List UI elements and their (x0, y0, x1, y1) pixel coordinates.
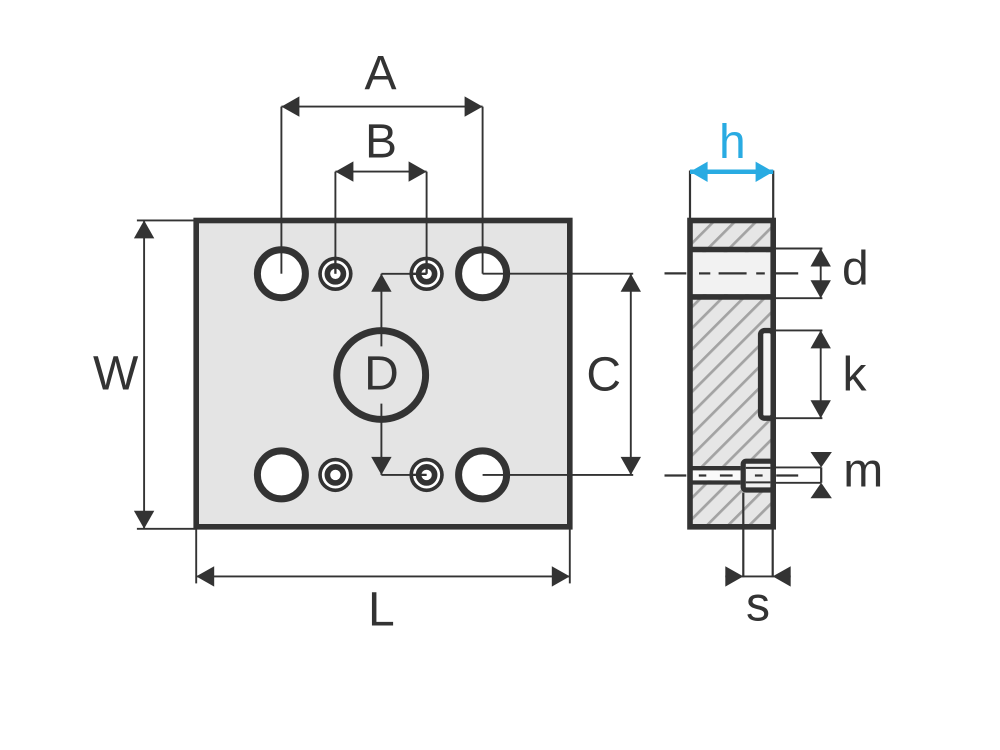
boss inner line top (746, 467, 771, 469)
groove band d (no hatch) (691, 252, 772, 294)
dimension B extension line left (334, 172, 336, 274)
hole bottom-left (257, 451, 305, 499)
centerline of slot m (665, 474, 799, 476)
slot band m bottom edge (690, 480, 741, 484)
slot band m (white) (691, 470, 741, 480)
dimension d line (811, 249, 831, 299)
dimension k line (811, 330, 831, 418)
svg-text:d: d (842, 243, 869, 296)
svg-text:L: L (368, 584, 395, 637)
dimension s line and outside arrows (725, 566, 790, 586)
dimension d extension lines (776, 248, 822, 250)
dimension C extension lines (483, 273, 634, 275)
slot band m top edge (690, 466, 741, 470)
dimension A extension line right (482, 107, 484, 274)
svg-text:C: C (586, 349, 621, 402)
A leader line inside top-left hole (280, 250, 282, 274)
hole top-left (257, 250, 305, 298)
dimension W line (134, 220, 154, 528)
dimension s extension lines (742, 493, 744, 578)
groove band d bottom edge (690, 294, 773, 300)
center bore D (337, 331, 426, 420)
svg-text:B: B (365, 116, 397, 169)
dimension k extension lines (776, 329, 822, 331)
dimension B extension line right (426, 172, 428, 274)
dimension h extension lines (689, 171, 691, 219)
dimension A line (281, 96, 482, 116)
svg-text:W: W (93, 348, 139, 401)
dimension D vertical line with arrows (371, 274, 426, 475)
dimension m extension lines (776, 466, 821, 468)
counterbore bottom-right (409, 458, 443, 492)
dimension W extension lines (137, 219, 196, 221)
A leader line inside top-right hole (482, 250, 484, 274)
counterbore top-right (409, 257, 443, 291)
dimension C line (621, 274, 641, 475)
dimension L line (196, 566, 570, 586)
dimension h line (cyan) (690, 162, 773, 182)
boss m box (743, 461, 773, 490)
side body hatch (690, 221, 773, 527)
dimension m line and outside arrows (811, 452, 832, 498)
dimension B line (335, 161, 426, 181)
side body outline (690, 221, 773, 527)
dimension A extension line left (280, 107, 282, 274)
svg-text:k: k (843, 349, 868, 402)
hole top-right (459, 250, 507, 298)
groove band d top edge (690, 247, 773, 253)
svg-text:D: D (364, 348, 399, 401)
svg-text:A: A (364, 47, 396, 100)
dimension L extension lines (195, 530, 197, 584)
svg-text:h: h (719, 116, 746, 169)
plate body (196, 221, 570, 527)
centerline of groove d (665, 272, 799, 274)
counterbore top-left (318, 257, 352, 291)
counterbore bottom-left (318, 458, 352, 492)
svg-text:s: s (746, 578, 770, 631)
boss inner line bottom (746, 481, 771, 483)
notch k (761, 331, 774, 419)
svg-text:m: m (843, 445, 883, 498)
hole bottom-right (459, 451, 507, 499)
